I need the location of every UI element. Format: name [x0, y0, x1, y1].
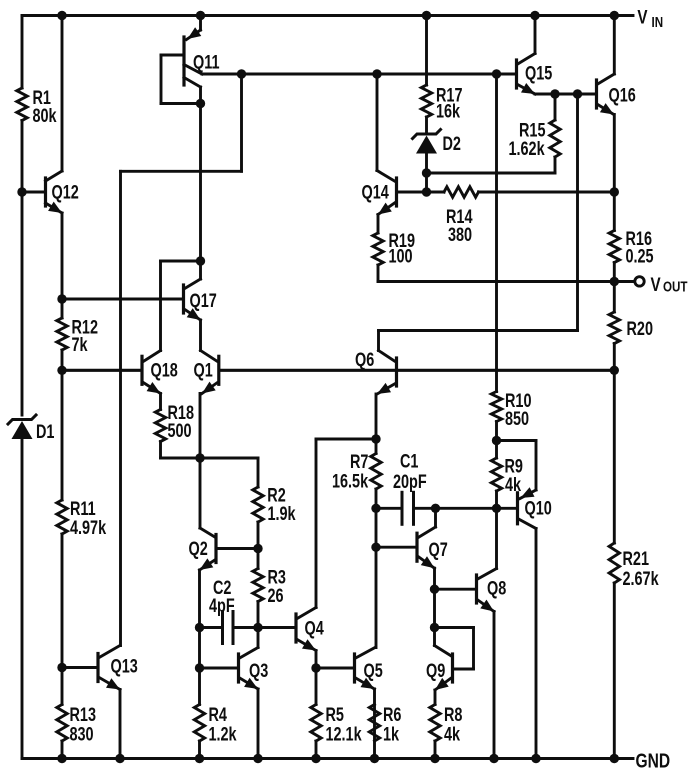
svg-text:Q18: Q18: [151, 360, 178, 381]
wire y439 link to R7: [316, 438, 376, 441]
wire Q2 emitter down: [198, 570, 201, 628]
wire Q9 base loop: [435, 628, 474, 670]
transistor Q6: [355, 349, 397, 394]
resistor R2: [253, 485, 296, 525]
wire Q8 collector riser: [495, 508, 498, 568]
wire Q14 emitter to R19: [377, 215, 380, 234]
node Q3 base junction: [195, 663, 204, 672]
wire Q6 collector row: [379, 329, 578, 332]
resistor R7: [332, 451, 381, 492]
wire Q11 collector row: [202, 73, 515, 76]
wire x577 drop: [576, 94, 579, 331]
wire R16 top lead: [613, 192, 616, 231]
node R5 GND: [311, 754, 320, 763]
svg-text:Q13: Q13: [111, 656, 138, 677]
wire VIN top rail: [22, 14, 633, 17]
svg-text:R20: R20: [627, 318, 653, 339]
wire left rail D1 to GND: [21, 439, 24, 759]
node R21 GND: [610, 754, 619, 763]
svg-text:Q12: Q12: [52, 182, 79, 203]
transistor Q17: [62, 279, 217, 320]
node R13 GND: [57, 754, 66, 763]
wire Q9 collector lead: [433, 628, 436, 646]
wire R18row to R2: [257, 458, 260, 487]
svg-text:20pF: 20pF: [393, 471, 427, 492]
wire R7 top lead: [375, 439, 378, 454]
svg-text:Q4: Q4: [305, 618, 325, 639]
wire R7 bottom lead: [375, 489, 378, 508]
resistor R18: [155, 402, 194, 441]
wire Q7 emitter to Q9: [433, 589, 436, 627]
transistor Q10: [497, 441, 552, 529]
transistor Q4: [258, 608, 324, 651]
wire VOUT row: [378, 280, 614, 283]
svg-text:500: 500: [168, 420, 192, 441]
svg-text:16k: 16k: [436, 101, 461, 122]
wire Q3 collector up: [257, 628, 260, 648]
wire GND bottom rail: [22, 757, 633, 760]
wire Q18 emitter to R18: [159, 394, 162, 410]
wire Q16 emitter down: [613, 115, 616, 193]
resistor R15: [509, 120, 561, 160]
svg-text:Q7: Q7: [429, 539, 448, 560]
node R6 GND: [370, 754, 379, 763]
svg-text:850: 850: [505, 408, 529, 429]
node VIN/Q15 collector: [530, 11, 539, 20]
resistor R3: [253, 567, 286, 607]
node R12 bottom / main row left end: [57, 366, 66, 375]
node R7 top / Q6 emitter: [371, 434, 380, 443]
resistor R12: [57, 317, 98, 356]
wire R13 to GND: [61, 741, 64, 759]
wire Q15 collector to VIN: [534, 16, 537, 54]
node x577 junction: [573, 89, 582, 98]
wire Q4 emitter down: [315, 651, 318, 669]
node Q17 collector junction: [196, 256, 205, 265]
node R8 GND: [430, 754, 439, 763]
resistor R6: [369, 704, 401, 745]
svg-text:V: V: [651, 273, 662, 295]
transistor Q8: [435, 569, 507, 612]
wire x62 main row to R11: [61, 370, 64, 500]
wire left rail upper (VIN to R1): [21, 16, 24, 89]
wire R18 bottom leads: [161, 442, 259, 459]
wire Q5 collector riser: [375, 547, 378, 647]
resistor R4: [194, 704, 237, 745]
svg-text:R21: R21: [623, 548, 649, 569]
resistor R13: [57, 704, 96, 745]
wire R14 right lead: [479, 191, 615, 194]
node Q13 GND: [115, 754, 124, 763]
node R9 bottom / Q10 base junction: [492, 504, 501, 513]
wire R3 top lead: [257, 549, 260, 569]
node y74/x241 corner junction: [237, 69, 246, 78]
resistor R16: [609, 228, 653, 267]
wire R12 bottom lead: [61, 350, 64, 370]
transistor Q13: [62, 646, 138, 690]
wire Q11 collector 2: [184, 78, 201, 104]
svg-text:Q10: Q10: [525, 498, 552, 519]
resistor R10: [491, 390, 531, 429]
node R10/R9/Q10 emitter junction: [492, 436, 501, 445]
svg-text:OUT: OUT: [663, 278, 687, 295]
svg-text:R7: R7: [350, 451, 368, 472]
wire Q14 collector riser: [376, 74, 379, 171]
svg-text:Q17: Q17: [190, 290, 217, 311]
wire R21 to GND: [613, 583, 616, 759]
svg-text:80k: 80k: [33, 105, 58, 126]
terminal GND: [636, 749, 671, 772]
svg-text:Q6: Q6: [355, 349, 374, 370]
svg-text:4k: 4k: [444, 724, 461, 745]
svg-text:26: 26: [268, 585, 284, 606]
node Q7 base junction: [371, 543, 380, 552]
svg-text:Q2: Q2: [189, 538, 208, 559]
resistor R9: [491, 456, 523, 496]
svg-text:100: 100: [389, 246, 413, 267]
transistor Q2: [189, 528, 259, 570]
svg-text:GND: GND: [636, 749, 671, 772]
node Q10 GND: [531, 754, 540, 763]
wire Q6 emitter down: [375, 394, 378, 439]
node R15 top junction: [550, 89, 559, 98]
node Q8 GND: [489, 754, 498, 763]
wire R9 top lead: [495, 441, 498, 459]
node Q4/R5/Q5 base junction: [311, 663, 320, 672]
node Q14 collector junction: [372, 69, 381, 78]
node R4 GND: [195, 754, 204, 763]
svg-text:4pF: 4pF: [209, 595, 235, 616]
wire R17 top lead: [425, 16, 428, 86]
wire R4 top lead: [198, 668, 201, 705]
transistor Q5: [316, 648, 383, 690]
wire R17 to D2: [425, 117, 428, 133]
wire Q6 collector riser: [377, 331, 380, 351]
wire R13 top lead: [61, 668, 64, 705]
wire R15 top lead: [554, 94, 557, 120]
wire x120 long drop to Q13: [119, 171, 122, 645]
wire R8 top lead: [434, 690, 437, 705]
svg-text:V: V: [637, 6, 648, 28]
wire main row left segment: [62, 369, 140, 372]
transistor Q7: [376, 527, 448, 568]
wire Q4 collector riser: [315, 439, 318, 608]
capacitor C2: [200, 577, 259, 643]
resistor R14: [444, 187, 479, 246]
wire R12 top lead: [61, 299, 64, 318]
resistor R5: [311, 704, 362, 745]
wire VOUT stub: [614, 280, 633, 283]
node R18/Q1/Q2 junction: [195, 453, 204, 462]
svg-text:1.2k: 1.2k: [209, 724, 238, 745]
resistor R11: [57, 498, 107, 538]
svg-text:R8: R8: [444, 704, 462, 725]
wire Q3 emitter to GND: [257, 689, 260, 759]
svg-text:D2: D2: [443, 133, 461, 154]
transistor Q3: [200, 648, 269, 690]
svg-text:1.9k: 1.9k: [268, 503, 297, 524]
wire left rail R1 to Q12 base: [21, 121, 24, 193]
diode D2: [413, 130, 461, 155]
svg-text:Q5: Q5: [364, 660, 383, 681]
wire Q7 emitter down: [433, 568, 436, 589]
svg-text:R6: R6: [383, 704, 401, 725]
wire Q15 base long drop: [495, 74, 498, 392]
wire Q15 emitter row: [535, 93, 595, 96]
svg-text:IN: IN: [652, 14, 664, 31]
wire R16 bottom lead: [613, 263, 616, 282]
wire R9 bottom lead: [495, 491, 498, 508]
wire R5 top lead: [315, 668, 318, 705]
svg-text:Q15: Q15: [525, 63, 552, 84]
svg-text:380: 380: [448, 224, 472, 245]
wire Q10 collector to GND: [535, 529, 538, 759]
transistor Q16: [597, 74, 636, 115]
svg-text:Q8: Q8: [487, 578, 506, 599]
wire R4 to GND: [198, 741, 201, 759]
transistor Q11: [184, 16, 219, 86]
resistor R21: [609, 543, 659, 590]
node C2 left junction: [195, 623, 204, 632]
wire Q7 collector riser: [434, 508, 437, 527]
svg-text:1.62k: 1.62k: [509, 138, 546, 159]
wire Q11 base loop: [161, 55, 201, 104]
svg-text:Q3: Q3: [249, 660, 268, 681]
svg-text:Q14: Q14: [362, 182, 390, 203]
svg-text:830: 830: [70, 724, 94, 745]
svg-text:Q9: Q9: [426, 660, 445, 681]
wire Q3 base to R4 column: [198, 628, 201, 669]
node main row right end: [610, 366, 619, 375]
wire C1 node to Q10 base node: [436, 507, 497, 510]
node R2/R3/Q2 base junction: [253, 544, 262, 553]
resistor R19: [373, 230, 415, 267]
wire Q5 emitter down: [373, 689, 376, 759]
wire left rail Q12 base to D1: [21, 192, 24, 415]
wire Q16 collector to VIN: [613, 16, 616, 75]
node R14/Q16 emitter/R16 junction: [610, 187, 619, 196]
node Q8 base junction: [430, 585, 439, 594]
transistor Q14: [362, 171, 427, 215]
svg-text:7k: 7k: [72, 334, 89, 355]
svg-text:R4: R4: [209, 704, 228, 725]
transistor Q15: [497, 54, 553, 95]
svg-text:1k: 1k: [383, 724, 400, 745]
svg-text:C1: C1: [400, 451, 418, 472]
node C1 right / Q7 collector: [431, 504, 440, 513]
wire R14 left lead: [427, 191, 445, 194]
wire Q11 to Q17 collector: [199, 104, 202, 280]
resistor R1: [17, 87, 57, 126]
wire Q8 emitter to GND: [493, 612, 496, 759]
wire Q12 emitter down: [61, 213, 64, 299]
diode D1: [8, 415, 54, 443]
svg-text:12.1k: 12.1k: [326, 724, 363, 745]
svg-text:D1: D1: [36, 421, 54, 442]
wire Q2 collector up: [199, 458, 202, 528]
resistor R20: [609, 312, 653, 344]
wire Q12 collector to VIN rail: [61, 16, 64, 172]
wire D2 to R15 bottom: [427, 172, 556, 175]
wire D2 bottom lead: [425, 154, 428, 174]
svg-text:0.25: 0.25: [626, 246, 654, 267]
svg-text:Q16: Q16: [609, 85, 636, 106]
wire R20 top lead: [613, 282, 616, 313]
terminal VIN: [637, 6, 663, 30]
node Q13 base junction: [57, 663, 66, 672]
wire R15 bottom lead: [554, 157, 557, 173]
transistor Q18: [142, 351, 178, 394]
wire R3 bottom lead: [257, 602, 260, 628]
wire D2 to Q14 base: [425, 173, 428, 192]
node VIN/Q11 emitter: [196, 11, 205, 20]
wire R5 to GND: [315, 741, 318, 759]
node Q3 GND: [253, 754, 262, 763]
node D2 bottom junction: [422, 168, 431, 177]
node VOUT junction: [610, 277, 619, 286]
wire R2 bottom lead: [257, 522, 260, 549]
wire x241 drop: [240, 74, 243, 171]
node C2 right / Q4 base junction: [253, 623, 262, 632]
wire Q13 emitter to GND: [119, 690, 122, 759]
wire y168 link: [121, 170, 242, 173]
svg-text:16.5k: 16.5k: [332, 471, 369, 492]
transistor Q1: [194, 351, 219, 394]
node R7 bottom / C1 left: [371, 504, 380, 513]
resistor R8: [430, 704, 463, 745]
svg-text:2.67k: 2.67k: [623, 568, 660, 589]
terminal VOUT: [635, 273, 688, 295]
svg-text:Q1: Q1: [194, 360, 213, 381]
wire Q17 emitter to Q1 collector: [199, 320, 202, 351]
node Q9 base loop junction: [430, 623, 439, 632]
node VIN/R17: [422, 11, 431, 20]
transistor Q9: [426, 646, 453, 691]
wire Q1 emitter down: [199, 394, 202, 459]
node VIN/Q16 collector: [610, 11, 619, 20]
node VIN/Q12 collector: [57, 11, 66, 20]
wire main row right segment: [220, 369, 614, 372]
capacitor C1: [376, 451, 436, 525]
node Q11 base-collector tie: [196, 99, 205, 108]
wire R8 to GND: [434, 741, 437, 759]
wire R19 bottom lead: [377, 265, 380, 282]
svg-text:4.97k: 4.97k: [70, 517, 107, 538]
node Q12 base junction: [17, 187, 26, 196]
wire Q17/Q18 collector link: [161, 261, 201, 351]
node Q15 base junction: [492, 69, 501, 78]
resistor R17: [421, 85, 462, 122]
wire R21 top lead: [613, 370, 616, 543]
wire Q11 collector 1: [184, 65, 202, 75]
wire R20 bottom lead: [613, 344, 616, 371]
svg-text:R5: R5: [326, 704, 344, 725]
node Q14 base junction: [422, 187, 431, 196]
transistor Q12: [22, 171, 79, 213]
wire R10 bottom lead: [495, 422, 498, 441]
svg-text:R13: R13: [70, 704, 96, 725]
wire R11 bottom lead: [61, 534, 64, 668]
node Q17 base / R12 top: [57, 294, 66, 303]
wire Q7 base column: [375, 508, 378, 547]
